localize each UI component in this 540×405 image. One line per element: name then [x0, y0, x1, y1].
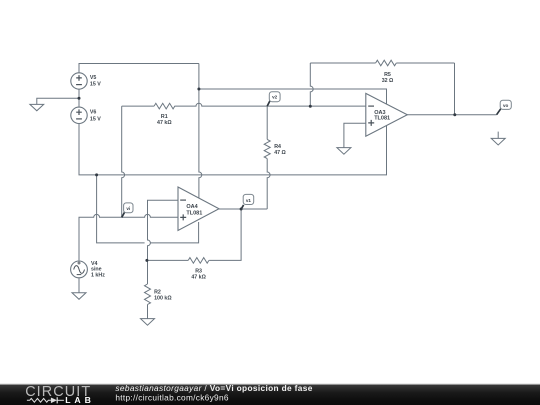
svg-text:TL081: TL081	[374, 116, 390, 122]
resistor R1 zigzag	[154, 103, 175, 109]
svg-text:vi: vi	[126, 206, 130, 211]
node flag v1	[241, 194, 254, 209]
svg-text:vo: vo	[503, 103, 509, 108]
svg-text:R5: R5	[384, 72, 391, 78]
node junction dot -15V rail / OA4 V- branch	[95, 173, 98, 176]
wire feedback top right segment	[396, 62, 454, 64]
node flag vi	[122, 203, 133, 218]
svg-text:LAB: LAB	[65, 395, 95, 405]
wire OA4 output to R4 bottom corner	[219, 208, 267, 210]
wire OA4 inverting input from R3/R2 junction vertical (hops over OA4 V- branch)	[148, 200, 179, 284]
svg-text:R4: R4	[274, 144, 281, 150]
svg-text:32 Ω: 32 Ω	[382, 78, 394, 84]
wire feedback right drop to output	[454, 63, 456, 115]
wire R1 left lead	[122, 105, 154, 107]
svg-text:http://circuitlab.com/ck6y9n6: http://circuitlab.com/ck6y9n6	[115, 393, 228, 403]
wire feedback left drop from R5 to v2 net (hops over OA3 V+ branch)	[310, 63, 313, 106]
svg-text:OA4: OA4	[186, 204, 198, 210]
label R3 value	[191, 268, 206, 280]
wire V4 bottom to ground	[78, 278, 80, 293]
ground (left, V5/V6 junction)	[30, 104, 44, 110]
op-amp OA3 TL081	[366, 93, 408, 136]
svg-text:47 Ω: 47 Ω	[274, 150, 286, 156]
CircuitLab logo	[25, 384, 95, 405]
resistor R4 zigzag	[264, 139, 270, 158]
node junction dot V5/V6/ground	[78, 97, 81, 100]
svg-text:R1: R1	[161, 114, 168, 120]
wire +15V vertical rail down to OA4 V+ pin (hops over -15V rail)	[199, 64, 202, 205]
voltage source V5 15V	[71, 73, 101, 89]
svg-text:V5: V5	[90, 75, 97, 81]
label R2 value	[154, 289, 172, 301]
wire R1 left vertical down to vi net (hops over -15V rail)	[122, 106, 125, 217]
node junction dot +15V rail / OA3 V+ branch	[197, 88, 200, 91]
wire -15V branch down to OA4 V- pin (hops over R2/R3 vertical)	[97, 175, 199, 243]
ground (floating, below vo)	[491, 132, 505, 145]
resistor R5 zigzag	[376, 60, 397, 66]
node junction dot output / feedback	[453, 113, 456, 116]
op-amp OA4 TL081	[178, 187, 219, 231]
node flag vo	[497, 100, 512, 115]
wire feedback top left segment	[310, 62, 375, 64]
label R4 value	[274, 144, 286, 156]
label R1 value	[157, 114, 172, 126]
wire OA3 V+ supply branch	[199, 89, 387, 105]
voltage source V6 15V	[71, 107, 101, 123]
wire OA3 output to vo	[407, 114, 496, 116]
wire R4 top to v2 node	[266, 106, 268, 139]
ground (V4)	[72, 293, 86, 300]
svg-text:47 kΩ: 47 kΩ	[191, 275, 206, 281]
svg-text:15 V: 15 V	[90, 116, 101, 122]
wire OA3 non-inverting input to ground	[344, 123, 366, 147]
svg-text:V6: V6	[90, 110, 97, 116]
svg-text:v1: v1	[246, 198, 252, 203]
svg-text:TL081: TL081	[186, 210, 202, 216]
wire -15V rail from V6 to OA3 V- pin	[79, 124, 387, 175]
wire R3 right lead up to v1	[209, 209, 241, 260]
svg-text:47 kΩ: 47 kΩ	[157, 120, 172, 126]
node junction dot v2 net / R5 drop	[309, 105, 312, 108]
wire R1 right to OA3 inverting input (hops over +15V rail)	[175, 103, 366, 106]
wire R4 bottom vertical (hops over -15V rail)	[267, 159, 270, 209]
wire V5/V6 junction to left ground	[37, 98, 79, 104]
svg-text:R2: R2	[154, 289, 161, 295]
ground (R2)	[141, 319, 155, 326]
wire R3 left lead	[148, 259, 189, 261]
node junction dot v1	[240, 208, 243, 211]
svg-text:sebastianastorgaayar / Vo=Vi o: sebastianastorgaayar / Vo=Vi oposicion d…	[115, 383, 312, 393]
label R5 value	[382, 72, 394, 84]
svg-text:v2: v2	[272, 95, 278, 100]
wire top rail (V5 plus to +15V rail)	[79, 64, 199, 74]
svg-text:1 kHz: 1 kHz	[91, 272, 105, 278]
voltage source V4 sine 1kHz	[71, 261, 106, 278]
wire vi net: V4 top up and right to OA4 + input (hops over two verticals)	[79, 214, 178, 260]
svg-text:R3: R3	[195, 268, 202, 274]
ground (OA3 non-inverting input)	[337, 148, 351, 155]
node junction dot R3/R2	[145, 259, 148, 262]
resistor R2 zigzag	[145, 284, 151, 305]
wire R2 bottom to ground	[147, 305, 149, 319]
svg-text:100 kΩ: 100 kΩ	[154, 296, 172, 302]
wire between V5 and V6	[78, 89, 80, 108]
resistor R3 zigzag	[188, 258, 209, 264]
node flag v2	[267, 92, 280, 106]
svg-text:15 V: 15 V	[90, 82, 101, 88]
